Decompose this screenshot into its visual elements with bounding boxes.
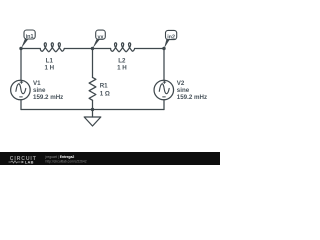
wire left column upper [20,49,22,81]
watermark bar [0,152,220,165]
svg-text:1 H: 1 H [44,65,54,72]
net label vx box [96,30,106,39]
wire left column lower [20,100,22,110]
wire middle column upper (vx to R1) [92,49,94,78]
svg-text:LAB: LAB [25,160,34,165]
svg-text:L2: L2 [118,57,126,64]
V2 sine wave [159,84,169,94]
V2 minus sign [163,96,166,98]
svg-text:L1: L1 [46,57,54,64]
net label in1 tail [21,39,28,49]
wire top rail left (node in1 to L1) [21,48,40,50]
net label in1 box [24,30,35,39]
V2 plus sign [163,81,166,84]
V1 plus sign [20,81,23,84]
svg-text:in1: in1 [26,34,34,40]
svg-text:1 Ω: 1 Ω [100,90,110,97]
wire right column upper [163,49,165,81]
voltage source V1 circle [11,80,31,100]
ground symbol triangle [84,117,101,126]
svg-text:in2: in2 [167,35,175,41]
svg-text:vx: vx [98,34,104,40]
ground junction dot [91,108,94,111]
svg-text:R1: R1 [100,83,108,90]
resistor R1 zigzag [89,77,96,100]
wire bottom rail [21,109,164,111]
ground stub wire [92,110,94,118]
voltage source V2 circle [154,80,174,100]
inductor L2 coil [111,43,135,52]
wire top rail vx to L2 [93,48,111,50]
net label vx tail [93,39,100,49]
CircuitLab logo zigzag [9,161,21,163]
svg-text:159.2 mHz: 159.2 mHz [33,94,63,101]
net label in2 tail [164,39,170,48]
svg-text:159.2 mHz: 159.2 mHz [177,94,207,101]
CircuitLab logo arrow [22,161,25,164]
wire middle column lower (R1 to bottom rail) [92,100,94,109]
V1 minus sign [20,96,23,98]
inductor L1 coil [40,43,64,52]
svg-text:http://circuitlab.com/c/22642: http://circuitlab.com/c/22642 [46,159,87,163]
wire top rail L1 to vx node [64,48,92,50]
svg-text:sine: sine [33,87,46,94]
wire right column lower [163,100,165,110]
node in1 junction dot [19,47,22,50]
wire top rail L2 to in2 node [135,48,164,50]
svg-text:1 H: 1 H [117,65,127,72]
node vx junction dot [91,47,94,50]
V1 sine wave [16,84,26,94]
svg-text:sine: sine [177,87,190,94]
net label in2 box [166,30,177,39]
node in2 junction dot [162,47,165,50]
